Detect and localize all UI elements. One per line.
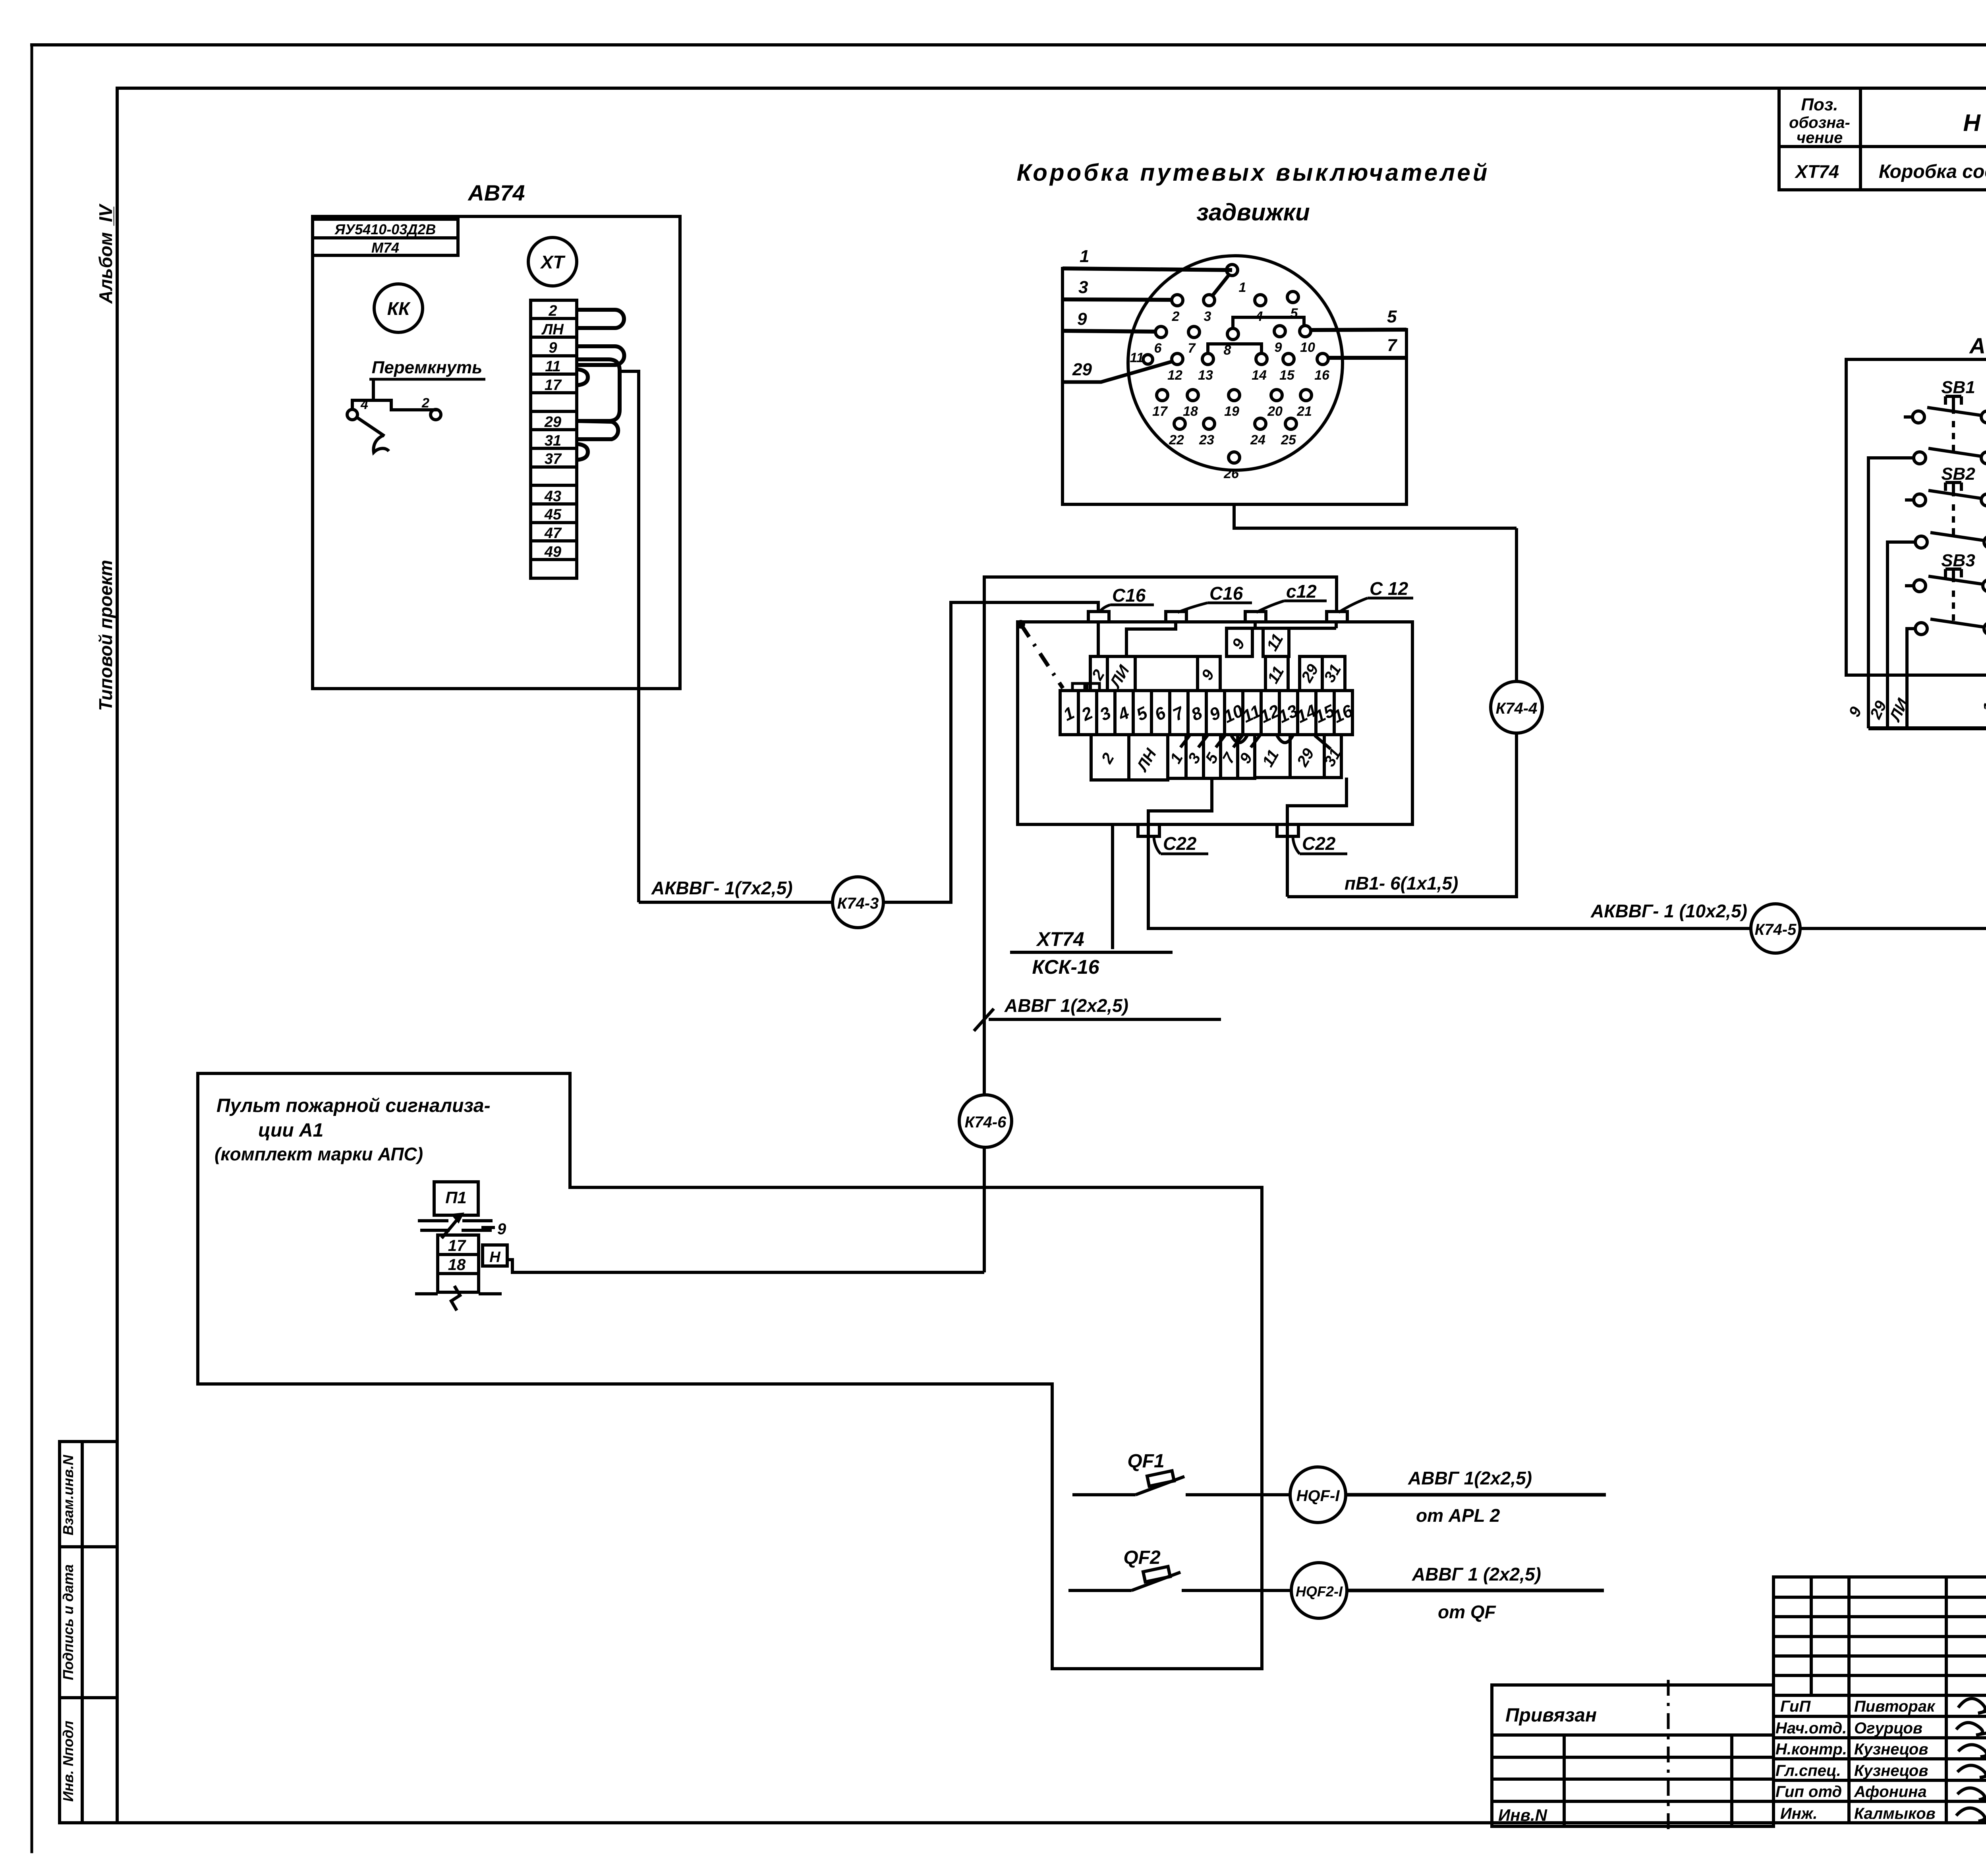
spec table xyxy=(1779,88,1986,190)
connector circle xyxy=(1128,256,1343,470)
label XT74 / KSK-16 with leader xyxy=(1111,824,1114,949)
svg-text:SB2: SB2 xyxy=(1941,464,1975,484)
svg-text:Привязан: Привязан xyxy=(1505,1705,1597,1726)
short link strokes between rows xyxy=(1180,735,1331,749)
svg-text:23: 23 xyxy=(1199,432,1214,448)
svg-text:Кузнецов: Кузнецов xyxy=(1854,1741,1928,1758)
svg-text:Коробка путевых выключателей: Коробка путевых выключателей xyxy=(1017,159,1490,186)
cable gland C22 left xyxy=(1138,824,1159,836)
svg-text:7: 7 xyxy=(1387,336,1398,355)
svg-text:чение: чение xyxy=(1797,129,1843,147)
connector pins xyxy=(1143,264,1328,463)
svg-text:Кузнецов: Кузнецов xyxy=(1854,1762,1928,1779)
svg-text:17: 17 xyxy=(448,1237,466,1255)
svg-text:ЯУ5410-03Д2В: ЯУ5410-03Д2В xyxy=(334,221,436,237)
wire PV1-6 from right C22 gland up through K74-4 to connector box xyxy=(1287,528,1517,897)
pin number labels xyxy=(1130,280,1330,481)
svg-text:12: 12 xyxy=(1167,368,1182,383)
signature roles xyxy=(1775,1698,1847,1822)
svg-text:Коробка соединительная КСК 1: Коробка соединительная КСК 16 xyxy=(1879,161,1986,182)
svg-text:Гип отд: Гип отд xyxy=(1775,1783,1842,1801)
cable marker K74-5 xyxy=(1751,904,1800,953)
svg-text:от QF: от QF xyxy=(1438,1602,1497,1622)
cable gland c12 no.3 xyxy=(1245,612,1266,622)
svg-text:Альбом I̲V̲: Альбом I̲V̲ xyxy=(95,203,116,304)
internal wire lower31 to right C22 gland xyxy=(1287,778,1347,897)
svg-text:19: 19 xyxy=(1224,404,1239,419)
svg-text:Перемкнуть: Перемкнуть xyxy=(372,358,483,377)
svg-text:3: 3 xyxy=(1078,278,1088,297)
XT74 main 16-terminal row xyxy=(1060,691,1352,735)
svg-text:4: 4 xyxy=(1255,309,1263,324)
svg-text:Инж.: Инж. xyxy=(1780,1805,1818,1822)
svg-text:4: 4 xyxy=(360,397,368,412)
svg-text:HQF-I: HQF-I xyxy=(1296,1487,1340,1505)
svg-text:1: 1 xyxy=(1239,280,1246,295)
svg-text:Н: Н xyxy=(489,1249,501,1266)
svg-text:ХТ74: ХТ74 xyxy=(1036,928,1084,950)
svg-text:47: 47 xyxy=(544,525,562,542)
left stamp boxes xyxy=(60,1442,117,1823)
svg-text:КК: КК xyxy=(387,298,411,319)
svg-text:ХТ: ХТ xyxy=(540,252,566,272)
svg-text:Огурцов: Огурцов xyxy=(1854,1720,1922,1737)
svg-text:АВВГ 1 (2х2,5): АВВГ 1 (2х2,5) xyxy=(1412,1564,1541,1585)
svg-text:АВВГ 1(2х2,5): АВВГ 1(2х2,5) xyxy=(1004,995,1128,1016)
lamp marker HQF2-1 xyxy=(1291,1563,1347,1618)
break marks below xyxy=(415,1286,502,1310)
AB74 type label table YaU5410-03D2V / M74 xyxy=(313,219,458,255)
lower terminal cells xyxy=(1091,735,1341,780)
svg-text:задвижки: задвижки xyxy=(1196,199,1310,226)
svg-text:К74-4: К74-4 xyxy=(1496,700,1538,717)
privyazan table xyxy=(1492,1685,1773,1826)
svg-text:АКВВГ- 1 (10х2,5): АКВВГ- 1 (10х2,5) xyxy=(1590,901,1747,921)
terminal block XT circle xyxy=(528,237,577,286)
P1 contact xyxy=(418,1214,493,1238)
cable marker K74-4 xyxy=(1491,681,1542,733)
svg-text:49: 49 xyxy=(544,544,561,560)
XT74 junction box outline xyxy=(1018,622,1412,824)
svg-text:18: 18 xyxy=(448,1256,466,1274)
jumper hooks on strip right side xyxy=(577,310,624,460)
svg-text:ГиП: ГиП xyxy=(1780,1698,1811,1715)
wire AKVVG-1(7x2,5) from AB74 to gland C16 no.1 xyxy=(639,602,1098,902)
svg-text:9: 9 xyxy=(497,1220,506,1238)
svg-text:6: 6 xyxy=(1154,341,1162,356)
svg-text:Поз.: Поз. xyxy=(1801,95,1838,114)
svg-text:SB3: SB3 xyxy=(1941,551,1975,570)
svg-text:2: 2 xyxy=(1172,309,1180,324)
cable gland C16 no.1 xyxy=(1088,612,1109,622)
svg-text:ЛН: ЛН xyxy=(541,321,564,338)
svg-text:QF1: QF1 xyxy=(1127,1451,1164,1472)
AN74 wire labels xyxy=(1845,696,1986,725)
svg-text:13: 13 xyxy=(1198,368,1213,383)
svg-text:20: 20 xyxy=(1267,404,1283,419)
fire alarm panel enclosure polygon xyxy=(198,1073,1262,1669)
svg-text:31: 31 xyxy=(545,432,561,449)
svg-text:2: 2 xyxy=(548,303,557,319)
svg-text:29: 29 xyxy=(1072,360,1092,379)
svg-text:7: 7 xyxy=(1188,341,1196,356)
limit switch box outline xyxy=(1063,268,1406,504)
svg-text:Инв.N: Инв.N xyxy=(1498,1806,1548,1824)
svg-text:25: 25 xyxy=(1281,432,1296,448)
terminal 9 stub xyxy=(481,1226,495,1229)
svg-text:К74-6: К74-6 xyxy=(965,1114,1007,1131)
svg-text:Взам.инв.N: Взам.инв.N xyxy=(60,1455,76,1536)
svg-text:Гл.спец.: Гл.спец. xyxy=(1775,1762,1841,1779)
svg-text:22: 22 xyxy=(1169,432,1184,448)
wire 9 to pin6 xyxy=(1063,331,1156,332)
jumper pin8 to pin10 xyxy=(1233,317,1304,329)
wire from terminal N to K74-6 riser xyxy=(507,1260,984,1272)
svg-text:QF2: QF2 xyxy=(1123,1547,1161,1568)
svg-text:К74-5: К74-5 xyxy=(1755,921,1797,938)
jumper pin1 to pin3 xyxy=(1212,274,1229,296)
wire AVVG riser through K74-6 to gland C12 no.4 xyxy=(984,577,1337,1272)
signature names xyxy=(1854,1698,1936,1822)
outer border left xyxy=(31,45,33,1852)
svg-text:9: 9 xyxy=(549,340,557,356)
relay KK circle xyxy=(374,284,423,332)
svg-text:16: 16 xyxy=(1314,368,1330,383)
svg-text:2: 2 xyxy=(421,396,429,411)
internal wire lower9 to left C22 gland xyxy=(1148,778,1212,925)
svg-text:18: 18 xyxy=(1183,404,1198,419)
wire 5 from pin10 xyxy=(1310,330,1406,330)
lamp marker HQF-1 xyxy=(1290,1467,1346,1523)
svg-text:AN74: AN74 xyxy=(1969,333,1986,358)
terminal labels xyxy=(541,303,564,560)
svg-text:9: 9 xyxy=(1077,309,1087,329)
svg-text:11: 11 xyxy=(1130,350,1144,365)
svg-text:15: 15 xyxy=(1279,368,1295,383)
jumper pin13 to pin14 xyxy=(1208,344,1262,353)
wire 7 from pin16 xyxy=(1328,356,1406,360)
svg-text:АКВВГ- 1(7х2,5): АКВВГ- 1(7х2,5) xyxy=(651,878,793,898)
stub wire from connector box bottom to PV1-6 riser xyxy=(1234,504,1517,528)
svg-text:9: 9 xyxy=(1275,340,1282,355)
svg-text:Типовой проект: Типовой проект xyxy=(95,560,116,711)
svg-text:АВВГ 1(2х2,5): АВВГ 1(2х2,5) xyxy=(1408,1468,1532,1488)
svg-text:5: 5 xyxy=(1291,306,1298,321)
svg-text:Наименование: Наименование xyxy=(1963,110,1986,136)
svg-text:Нач.отд.: Нач.отд. xyxy=(1775,1720,1847,1737)
device P1 box xyxy=(434,1182,478,1215)
svg-text:АВ74: АВ74 xyxy=(467,180,525,205)
svg-text:от АРL 2: от АРL 2 xyxy=(1416,1505,1500,1526)
wire 29 to pin12 xyxy=(1063,361,1173,382)
svg-text:С22: С22 xyxy=(1163,833,1197,854)
svg-text:3: 3 xyxy=(1204,309,1211,324)
svg-text:ции А1: ции А1 xyxy=(258,1120,323,1141)
svg-text:21: 21 xyxy=(1296,404,1312,419)
svg-text:43: 43 xyxy=(544,488,561,505)
outer border top xyxy=(32,43,1986,46)
svg-text:С16: С16 xyxy=(1112,585,1146,606)
svg-text:с12: с12 xyxy=(1286,581,1317,602)
jumper symbol pins 4 and 2 xyxy=(347,379,441,452)
wire from HQF2-1 xyxy=(1347,1589,1604,1592)
svg-text:Афонина: Афонина xyxy=(1854,1783,1927,1801)
svg-text:П1: П1 xyxy=(445,1188,467,1207)
svg-text:С16: С16 xyxy=(1209,583,1243,604)
AN74 wire bus xyxy=(1868,726,1986,730)
AN74 box xyxy=(1846,359,1986,675)
svg-text:11: 11 xyxy=(545,358,560,375)
svg-text:Пульт пожарной сигнализа-: Пульт пожарной сигнализа- xyxy=(216,1095,491,1116)
svg-text:С22: С22 xyxy=(1302,833,1336,854)
small nubs on terminal row xyxy=(1072,683,1085,691)
svg-text:24: 24 xyxy=(1250,432,1265,448)
svg-text:14: 14 xyxy=(1252,368,1267,383)
terminals 17 18 xyxy=(438,1235,479,1292)
cable marker K74-6 xyxy=(959,1095,1012,1147)
svg-text:10: 10 xyxy=(1300,340,1315,355)
title block outline xyxy=(1773,1577,1986,1823)
svg-text:SB1: SB1 xyxy=(1941,378,1975,397)
upper terminal cells level B xyxy=(1090,656,1345,691)
wire 1 (top edge to pin1) xyxy=(1063,268,1232,270)
svg-text:37: 37 xyxy=(545,451,562,467)
cable marker K74-3 xyxy=(833,877,883,928)
upper cell labels xyxy=(1088,631,1345,692)
main row numerals 1-16 xyxy=(1060,701,1356,727)
svg-text:1: 1 xyxy=(1080,247,1089,266)
svg-text:17: 17 xyxy=(545,377,562,394)
terminal N box xyxy=(483,1245,507,1266)
AB74 box xyxy=(313,216,680,689)
cable gland C12 no.4 xyxy=(1327,612,1347,622)
svg-text:М74: М74 xyxy=(371,239,399,256)
XT terminal strip of AB74 xyxy=(531,300,577,578)
upper terminal cells level A with feed line xyxy=(1098,622,1336,656)
svg-text:Пивторак: Пивторак xyxy=(1854,1698,1936,1715)
svg-text:17: 17 xyxy=(1152,404,1168,419)
svg-text:45: 45 xyxy=(544,506,562,523)
chassis dash-dot mark xyxy=(1016,620,1025,629)
cable gland C22 right xyxy=(1277,824,1298,836)
svg-text:пВ1- 6(1х1,5): пВ1- 6(1х1,5) xyxy=(1345,873,1458,894)
svg-text:К74-3: К74-3 xyxy=(837,895,879,912)
signature squiggles xyxy=(1956,1698,1986,1821)
lower cell labels xyxy=(1098,745,1345,775)
wire from HQF-1 xyxy=(1346,1493,1606,1497)
svg-text:Подпись и дата: Подпись и дата xyxy=(60,1564,76,1680)
svg-text:(комплект марки АПС): (комплект марки АПС) xyxy=(214,1144,423,1164)
wire AKVVG-1(10x2,5) from left C22 gland to AN74 xyxy=(1148,728,1986,928)
svg-text:ХТ74: ХТ74 xyxy=(1794,161,1839,182)
svg-text:КСК-16: КСК-16 xyxy=(1032,956,1099,978)
svg-text:С 12: С 12 xyxy=(1370,578,1408,599)
svg-text:29: 29 xyxy=(544,414,561,430)
cable gland C16 no.2 xyxy=(1166,612,1186,622)
signature table grid xyxy=(1773,1577,1986,1823)
wire from AB74 strip down xyxy=(620,371,639,902)
fold dash-dot line xyxy=(1667,1680,1670,1835)
svg-text:Инв. Nподл: Инв. Nподл xyxy=(60,1721,76,1802)
svg-text:Калмыков: Калмыков xyxy=(1854,1805,1936,1822)
svg-text:Н.контр.: Н.контр. xyxy=(1775,1741,1847,1758)
svg-text:26: 26 xyxy=(1223,466,1239,481)
wire 3 to pin2 xyxy=(1063,299,1172,300)
svg-text:HQF2-I: HQF2-I xyxy=(1296,1583,1343,1600)
svg-text:8: 8 xyxy=(1224,343,1231,358)
svg-text:5: 5 xyxy=(1387,307,1397,326)
